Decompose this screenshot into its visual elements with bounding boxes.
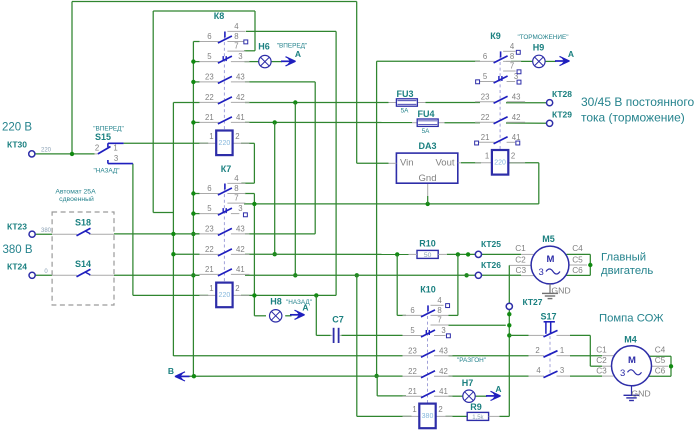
svg-text:A: A	[568, 49, 574, 59]
svg-text:S18: S18	[75, 218, 91, 228]
svg-text:6: 6	[207, 32, 211, 41]
svg-text:4: 4	[536, 366, 541, 375]
svg-text:2: 2	[235, 132, 239, 141]
junction x173 K7-22	[171, 252, 175, 256]
svg-text:5: 5	[483, 72, 488, 81]
wire KT23 to box	[35, 233, 52, 235]
label 30/45V line2	[581, 111, 685, 125]
wire K8 pin7 loop left drop	[152, 11, 154, 213]
svg-text:5: 5	[207, 52, 212, 61]
wire left bus	[193, 42, 199, 377]
capacitor C7	[331, 315, 344, 344]
svg-text:КТ26: КТ26	[481, 260, 501, 270]
svg-text:сдвоенный: сдвоенный	[59, 195, 94, 203]
wire M4 C4-C6 bracket	[649, 356, 671, 376]
motor M4	[612, 335, 652, 386]
relay K10 coil	[403, 404, 453, 429]
svg-text:43: 43	[512, 92, 521, 101]
wire H7 to arrow	[475, 395, 487, 397]
svg-text:4: 4	[234, 174, 239, 183]
svg-text:C2: C2	[515, 255, 526, 265]
svg-text:22: 22	[408, 367, 417, 376]
wire vertical x173	[172, 103, 174, 357]
wire K9-43 to KT28	[506, 102, 547, 104]
svg-text:21: 21	[408, 387, 417, 396]
svg-text:H8: H8	[270, 297, 282, 307]
terminal KT23	[7, 222, 52, 238]
bus stub K8-5	[193, 61, 199, 63]
label TORMOZHENIE	[517, 34, 568, 41]
wire to DA3 Vin	[357, 162, 389, 164]
relay K9 coil	[475, 150, 525, 175]
svg-text:FU4: FU4	[417, 109, 434, 119]
junction S17 feed	[507, 333, 511, 337]
svg-text:"НАЗАД": "НАЗАД"	[93, 167, 119, 174]
svg-text:FU3: FU3	[396, 89, 413, 99]
wire KT26 to M5-C3	[482, 274, 522, 276]
wire K7 pin8 drop	[245, 194, 255, 316]
svg-text:1: 1	[209, 132, 213, 141]
wire K8-41 to FU4	[245, 121, 412, 123]
svg-text:50: 50	[424, 252, 432, 259]
wire K9-8 to H9	[506, 60, 533, 62]
svg-text:2: 2	[95, 144, 99, 153]
svg-text:GND: GND	[631, 389, 650, 399]
junction bus K7-5	[191, 211, 195, 215]
junction M4 C5	[669, 364, 673, 368]
bus stub K8-21	[193, 121, 199, 123]
lead M4-C2	[602, 365, 614, 367]
svg-text:5: 5	[207, 204, 212, 213]
wire K8 pin7 stub	[244, 50, 255, 52]
terminal KT29	[547, 110, 573, 127]
junction bus K7-21	[191, 273, 195, 277]
svg-text:21: 21	[205, 113, 214, 122]
junction K8-41 x274	[273, 120, 277, 124]
svg-text:21: 21	[205, 265, 214, 274]
junction bus K8-21	[191, 120, 195, 124]
svg-text:S15: S15	[95, 132, 111, 142]
fuse FU4	[412, 109, 445, 135]
wire FU4 to K9-22	[445, 122, 481, 124]
wire 220V left drop	[71, 2, 73, 154]
junction M5 C5	[588, 263, 592, 267]
wire K9 coil2 out	[507, 162, 539, 164]
breaker dashed box	[52, 189, 114, 306]
svg-text:41: 41	[439, 387, 448, 396]
relay K7 contacts	[199, 164, 249, 283]
svg-text:220 В: 220 В	[2, 122, 32, 134]
wire x173 to K7-22	[173, 253, 199, 255]
junction K7-41 x295	[293, 273, 297, 277]
svg-text:42: 42	[512, 113, 521, 122]
lamp H9	[533, 43, 545, 68]
wire K10-43 to S17	[449, 355, 529, 357]
bus stub K7-23	[193, 233, 199, 235]
wire K9 coil2 drop	[538, 163, 540, 204]
svg-text:8: 8	[510, 52, 514, 61]
svg-text:1,5k: 1,5k	[472, 415, 484, 421]
wire KT25 to M5-C1	[482, 253, 522, 255]
svg-text:5А: 5А	[401, 108, 410, 115]
svg-text:380: 380	[41, 228, 52, 234]
wire x173 corner to K10-23	[173, 355, 402, 357]
svg-text:43: 43	[236, 72, 245, 81]
svg-text:8: 8	[234, 32, 238, 41]
svg-text:220: 220	[219, 292, 231, 299]
svg-text:КТ25: КТ25	[481, 239, 501, 249]
svg-text:"РАЗГОН": "РАЗГОН"	[457, 357, 486, 364]
terminal KT25	[475, 239, 501, 258]
svg-text:Главный: Главный	[601, 252, 646, 264]
svg-text:6: 6	[410, 306, 414, 315]
wire FU3 row left	[173, 102, 199, 104]
svg-text:2: 2	[438, 405, 442, 414]
junction KT25 pre	[466, 252, 470, 256]
wire R9 to x509	[500, 415, 510, 417]
junction below KT27	[507, 312, 511, 316]
svg-text:8: 8	[437, 306, 441, 315]
regulator DA3	[389, 141, 462, 184]
wire S15-3 to K7 coil	[133, 294, 208, 296]
svg-text:GND: GND	[551, 286, 570, 296]
wire x356 drop	[357, 275, 412, 416]
svg-text:КТ30: КТ30	[7, 140, 27, 150]
motor M5 terminals	[515, 243, 583, 275]
relay K7 coil	[199, 283, 249, 308]
wire K10 coil2 to R9	[446, 415, 468, 417]
wire B row	[190, 375, 403, 377]
svg-text:C4: C4	[655, 345, 666, 355]
wire Vout to K9 coil	[461, 162, 481, 164]
svg-text:КТ27: КТ27	[522, 297, 542, 307]
relay K10 contacts	[403, 285, 453, 405]
junction K10-7 in	[507, 323, 511, 327]
wire H8 feed	[254, 315, 266, 317]
svg-text:C6: C6	[572, 265, 583, 275]
svg-text:21: 21	[481, 133, 490, 142]
wire to S17 row0	[509, 334, 528, 336]
svg-text:Vout: Vout	[435, 158, 454, 169]
wire S18 out	[114, 233, 200, 235]
wire K7 coil2 out	[241, 294, 336, 296]
svg-text:4: 4	[234, 22, 239, 31]
motor M4 ground	[624, 386, 651, 401]
svg-text:C3: C3	[596, 366, 607, 376]
lead M4-C3	[602, 375, 614, 377]
wire H9 to arrow	[545, 60, 556, 62]
wire KT26 junctions	[355, 273, 469, 277]
label 30/45V line1	[581, 95, 694, 109]
svg-text:3: 3	[560, 366, 564, 375]
wire H6 to arrow	[271, 61, 282, 63]
bus stub K7-5	[193, 213, 199, 215]
relay K9 contacts	[475, 31, 525, 150]
svg-text:6: 6	[483, 52, 487, 61]
junction R10 left	[395, 252, 399, 256]
wire link x153 to x173	[153, 212, 173, 214]
svg-text:43: 43	[236, 224, 245, 233]
svg-text:380: 380	[422, 413, 434, 420]
svg-text:C3: C3	[515, 265, 526, 275]
svg-text:30/45 В постоянного: 30/45 В постоянного	[581, 95, 694, 109]
svg-text:"ВПЕРЕД": "ВПЕРЕД"	[277, 42, 308, 49]
svg-text:4: 4	[510, 42, 515, 51]
junction bus K8-5	[191, 59, 195, 63]
resistor R10	[409, 239, 447, 260]
wire K7-42 to R10	[245, 253, 409, 255]
relay K8 coil	[199, 131, 249, 156]
wire K8 pin4 out	[246, 30, 336, 32]
svg-text:220: 220	[41, 148, 52, 154]
net arrow A fwd	[281, 49, 301, 66]
switch S17	[529, 312, 571, 378]
wire GND row	[244, 203, 539, 205]
relay K7 pin3 square	[243, 213, 247, 217]
wire S17-3 to M4-C3	[570, 375, 602, 377]
junction bus B	[192, 374, 196, 378]
svg-text:2: 2	[511, 152, 515, 161]
svg-text:S17: S17	[540, 312, 556, 322]
svg-text:220: 220	[494, 159, 506, 166]
wire K8-42 to FU3	[245, 102, 389, 104]
svg-text:4: 4	[437, 296, 442, 305]
wire DA3 gnd lead	[427, 183, 429, 204]
svg-text:КТ24: КТ24	[7, 262, 27, 272]
svg-text:2: 2	[235, 284, 239, 293]
svg-text:C1: C1	[515, 243, 526, 253]
switch S15	[93, 125, 133, 174]
svg-text:42: 42	[439, 367, 448, 376]
svg-text:Автомат 25А: Автомат 25А	[55, 189, 96, 196]
wire H8 to arrow	[285, 315, 291, 317]
relay K10 squares	[446, 304, 451, 338]
svg-text:двигатель: двигатель	[601, 265, 653, 277]
svg-text:R9: R9	[470, 402, 482, 412]
junction C7 tap	[314, 293, 318, 297]
fuse FU3	[389, 89, 426, 115]
svg-text:380 В: 380 В	[2, 244, 32, 256]
svg-text:S14: S14	[75, 259, 91, 269]
lamp H6	[258, 42, 307, 68]
wire C7 to K10-5	[341, 334, 402, 336]
wire C7 drop	[316, 295, 330, 335]
junction GND DA3	[426, 202, 430, 206]
wire vertical x274	[274, 122, 276, 254]
wire C2 drop	[508, 265, 510, 303]
terminal KT24	[7, 262, 48, 279]
bus stub K8-23	[193, 81, 199, 83]
svg-text:3: 3	[441, 326, 445, 335]
svg-text:H6: H6	[258, 42, 270, 52]
lead M4-C1	[602, 355, 614, 357]
svg-text:3: 3	[114, 154, 118, 163]
wire K8-3 to H6	[245, 61, 259, 63]
wire KT27 down	[508, 310, 510, 417]
terminal KT26	[475, 260, 501, 278]
svg-text:C1: C1	[596, 345, 607, 355]
junction KT30 bus	[70, 152, 74, 156]
wire K10-41 to H7	[449, 395, 463, 397]
wire vertical x315 K8-43 to K7-43	[314, 82, 316, 234]
wire 220V right drop to DA3	[356, 2, 358, 164]
relay K9 squares	[475, 50, 521, 145]
switch S14	[52, 259, 114, 277]
wire KT30 to S15	[35, 153, 95, 155]
svg-text:В: В	[168, 366, 174, 376]
svg-text:C7: C7	[332, 315, 344, 325]
svg-text:23: 23	[205, 72, 214, 81]
svg-text:23: 23	[481, 92, 490, 101]
svg-text:1: 1	[412, 405, 416, 414]
svg-text:5А: 5А	[422, 128, 431, 135]
wire 220V top rail	[72, 1, 357, 3]
svg-text:Gnd: Gnd	[419, 173, 437, 184]
svg-text:3: 3	[620, 368, 625, 379]
lead M5-C3	[521, 275, 534, 277]
svg-text:1: 1	[113, 143, 117, 152]
svg-text:КТ29: КТ29	[552, 110, 572, 120]
wire S17-1 to M4-C1	[570, 355, 602, 357]
svg-text:C2: C2	[596, 355, 607, 365]
svg-text:43: 43	[439, 346, 448, 355]
wire K8-43 right	[245, 81, 315, 83]
wire vertical x336	[335, 31, 337, 295]
wire S15-3 drop	[132, 164, 134, 296]
net arrow A back	[290, 303, 309, 320]
svg-text:М: М	[628, 355, 636, 366]
relay K8 pin8 square	[244, 40, 248, 44]
svg-text:1: 1	[560, 346, 564, 355]
terminal KT30	[7, 140, 52, 157]
lead M5-C2	[509, 264, 533, 266]
bus stub K7-6	[193, 193, 199, 195]
wire FU3 to K9-23	[426, 102, 481, 104]
net arrow A brake	[555, 49, 574, 66]
svg-text:"ТОРМОЖЕНИЕ": "ТОРМОЖЕНИЕ"	[517, 34, 568, 41]
svg-text:К10: К10	[420, 285, 436, 295]
motor M5 ground	[542, 284, 571, 299]
svg-text:7: 7	[234, 194, 238, 203]
wire K8 pin7 loop right drop	[254, 11, 256, 51]
lamp H8	[270, 297, 313, 322]
svg-text:R10: R10	[419, 239, 436, 249]
label pompa	[599, 313, 664, 325]
wire S15-1 to K8 coil	[124, 142, 209, 144]
switch S18	[52, 218, 114, 236]
wire R10 right drop to K10-8	[449, 254, 458, 315]
svg-text:К7: К7	[221, 164, 232, 174]
junction GND x254	[252, 202, 256, 206]
wire KT24 to box	[35, 274, 52, 276]
wire S14 out	[114, 274, 200, 276]
junction R10 right	[456, 252, 460, 256]
svg-text:1: 1	[209, 284, 213, 293]
svg-text:7: 7	[437, 316, 441, 325]
wire R10 right to KT25	[447, 253, 476, 255]
relay K8 contacts	[199, 11, 249, 131]
svg-text:7: 7	[234, 42, 238, 51]
bus stub K7-21	[193, 274, 199, 276]
svg-text:23: 23	[408, 346, 417, 355]
svg-text:22: 22	[481, 113, 490, 122]
svg-text:41: 41	[512, 133, 521, 142]
svg-text:41: 41	[236, 265, 245, 274]
junction bus K7-23	[191, 232, 195, 236]
wire K9-42 to KT29	[506, 122, 547, 124]
svg-text:2: 2	[535, 346, 539, 355]
wire B to K10-21	[377, 376, 406, 396]
svg-text:M5: M5	[542, 234, 555, 244]
label glavny	[601, 252, 653, 278]
lamp H7	[462, 378, 475, 403]
svg-text:3: 3	[539, 267, 544, 278]
svg-text:C4: C4	[572, 243, 583, 253]
terminal KT28	[547, 89, 573, 106]
wire R10 left drop to K10-6	[397, 254, 406, 315]
wire vertical x376	[376, 61, 378, 376]
svg-text:A: A	[495, 384, 501, 394]
svg-text:5: 5	[410, 326, 415, 335]
svg-text:42: 42	[236, 245, 245, 254]
wire S17-0 out	[570, 335, 602, 366]
svg-text:42: 42	[236, 93, 245, 102]
svg-text:8: 8	[234, 184, 238, 193]
wire K10-7 out	[449, 324, 506, 326]
wire M5 C4-C6 bracket	[567, 254, 591, 275]
svg-text:220: 220	[219, 140, 231, 147]
motor M4 terminals	[596, 345, 665, 376]
svg-text:6: 6	[207, 184, 211, 193]
svg-text:23: 23	[205, 224, 214, 233]
terminal KT27	[506, 297, 543, 310]
svg-text:22: 22	[205, 93, 214, 102]
svg-text:22: 22	[205, 245, 214, 254]
wire x376 to K9-6	[377, 60, 480, 62]
svg-text:К8: К8	[214, 11, 225, 21]
svg-text:3: 3	[238, 52, 242, 61]
label RAZGON	[457, 357, 486, 364]
svg-text:M4: M4	[624, 335, 637, 345]
svg-text:H7: H7	[462, 378, 474, 388]
svg-text:1: 1	[485, 152, 489, 161]
junction K7-42 x274	[273, 252, 277, 256]
svg-text:A: A	[295, 49, 301, 59]
svg-text:C5: C5	[655, 355, 666, 365]
junction bus K7-6	[191, 191, 195, 195]
svg-text:"ВПЕРЕД": "ВПЕРЕД"	[93, 125, 124, 132]
resistor R9	[467, 402, 499, 421]
wire K7-41 to KT26	[245, 274, 475, 276]
lead M5-C1	[521, 253, 534, 255]
svg-text:КТ28: КТ28	[552, 89, 572, 99]
wire K10-42 to S17	[449, 375, 529, 377]
svg-text:A: A	[302, 303, 308, 313]
svg-text:Vin: Vin	[400, 158, 414, 169]
wire K8 coil2 out	[241, 143, 254, 183]
svg-text:Помпа СОЖ: Помпа СОЖ	[599, 313, 664, 325]
svg-text:DA3: DA3	[418, 141, 436, 151]
net arrow B	[168, 366, 190, 381]
svg-text:H9: H9	[533, 43, 545, 53]
motor M5	[531, 234, 569, 284]
wire K8 pin7 loop top	[153, 10, 255, 12]
svg-text:М: М	[547, 254, 555, 265]
label 220V	[2, 122, 32, 134]
junction bus K8-23	[191, 80, 195, 84]
svg-text:C5: C5	[572, 254, 583, 264]
svg-text:C6: C6	[655, 366, 666, 376]
